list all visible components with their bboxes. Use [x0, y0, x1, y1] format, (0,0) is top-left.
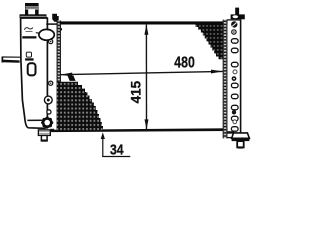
band-to-outlet connector — [50, 129, 54, 132]
inlet ellipse — [36, 29, 54, 40]
top-right broken-out hatch — [196, 24, 223, 59]
svg-text:415: 415 — [128, 81, 144, 104]
bolt circle on right tank — [231, 21, 237, 27]
right tank slots — [231, 39, 238, 132]
small icon with bar — [25, 52, 33, 61]
dark bar on tank face — [22, 36, 36, 38]
dim 480 line — [60, 70, 223, 77]
left mounting tab — [2, 57, 21, 63]
left side plate clip — [52, 14, 59, 22]
side plate crimp circle lower — [49, 81, 53, 85]
side plate crimp circle upper — [49, 40, 53, 44]
left side plate (dotted strip) — [57, 21, 60, 132]
small circle — [47, 110, 51, 114]
core bottom band — [50, 128, 229, 132]
drain plug flower — [41, 117, 53, 129]
dim 415 line — [144, 25, 148, 130]
svg-text:480: 480 — [174, 55, 195, 72]
right tank — [227, 19, 241, 138]
dim 34 leader — [101, 132, 131, 157]
small dot on side plate — [59, 28, 62, 31]
right tank circles — [232, 30, 237, 124]
svg-text:34: 34 — [110, 142, 124, 159]
tank bottom inner step line — [27, 119, 44, 121]
left tank body — [21, 18, 48, 128]
top-right clip — [231, 8, 245, 20]
bottom-left broken-out hatch — [68, 76, 76, 81]
filler neck — [25, 3, 39, 19]
core top band — [60, 21, 228, 24]
oval slot on tank — [28, 63, 36, 75]
tank top flange — [20, 14, 47, 18]
right side plate (dotted strip) — [223, 20, 227, 139]
tank top plate to core — [46, 23, 57, 25]
concentric circles (sensor boss) — [44, 96, 52, 104]
bottom-left outlet pipe — [38, 130, 50, 142]
embossed squiggle icon — [24, 28, 33, 32]
bottom-right outlet — [227, 131, 249, 148]
